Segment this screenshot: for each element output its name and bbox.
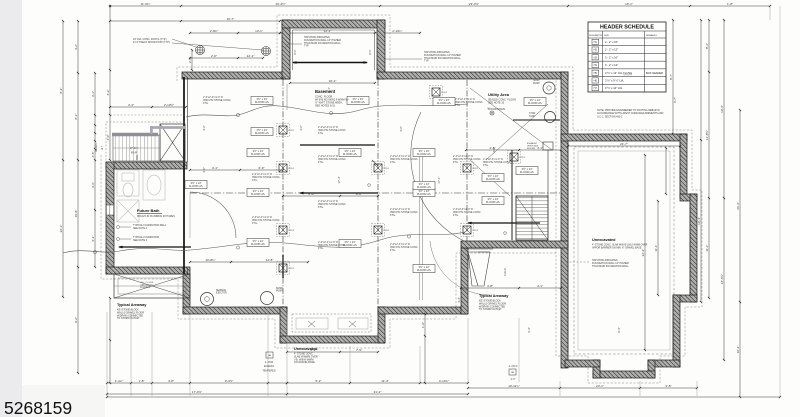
column line C	[466, 80, 468, 241]
svg-text:FLOOR LVL: FLOOR LVL	[528, 101, 543, 105]
svg-text:FTG.: FTG.	[455, 104, 461, 107]
svg-text:8'-7": 8'-7"	[669, 74, 673, 80]
left gray margin strip	[0, 0, 22, 417]
svg-text:5'-2": 5'-2"	[316, 379, 322, 383]
footing note 1	[318, 126, 347, 135]
svg-text:3 - 2" x 12": 3 - 2" x 12"	[605, 63, 618, 67]
footing P3	[277, 224, 295, 237]
column line A (dash-dot vertical)	[282, 80, 284, 307]
label box LVL 5	[247, 149, 269, 157]
faint bottom-left band	[22, 385, 105, 417]
stair labels	[130, 147, 139, 160]
photo id number 5268159	[4, 398, 72, 417]
svg-text:P1D2: P1D2	[442, 92, 448, 94]
wall wing right upper	[680, 134, 687, 198]
label box LVL 13	[339, 149, 361, 157]
label box LVL 6	[413, 149, 435, 157]
footing note 11	[390, 243, 419, 252]
footing note 13	[203, 96, 232, 105]
svg-text:FLOOR LVL: FLOOR LVL	[351, 100, 366, 104]
utility pipes	[470, 88, 552, 196]
label box LVL 11	[413, 265, 435, 273]
label box LVL 10	[339, 240, 361, 248]
svg-text:TYP.: TYP.	[304, 45, 309, 48]
svg-text:26'-1": 26'-1"	[59, 225, 63, 233]
beam arrow wing	[513, 119, 560, 121]
svg-text:4'-0": 4'-0"	[106, 135, 110, 141]
svg-text:TEMPERED: TEMPERED	[262, 369, 276, 372]
wall right of main block	[561, 72, 568, 368]
svg-text:DESIGNATION: DESIGNATION	[589, 34, 603, 37]
svg-text:2'-8": 2'-8"	[666, 384, 672, 388]
floor drain symbol	[487, 108, 494, 115]
svg-text:PUMP: PUMP	[276, 291, 283, 293]
note conc footing posts	[133, 38, 263, 50]
svg-text:FTG.: FTG.	[252, 222, 258, 225]
label box LVL 8	[413, 189, 435, 197]
svg-text:1'-8": 1'-8"	[727, 2, 733, 6]
label box LVL 4	[524, 98, 546, 106]
svg-text:U.C.C. SECTION 403-1.: U.C.C. SECTION 403-1.	[597, 115, 623, 118]
beam arrow left	[118, 246, 191, 249]
svg-text:9'-4½": 9'-4½"	[225, 379, 233, 383]
svg-text:4'-0": 4'-0"	[511, 378, 516, 381]
svg-text:SEE NOTES 8-10.: SEE NOTES 8-10.	[315, 105, 336, 108]
left dimension line 3	[91, 72, 96, 268]
svg-text:8'-0": 8'-0"	[309, 192, 315, 196]
label box LVL 17	[251, 128, 273, 136]
svg-text:2--2X62: 2--2X62	[265, 361, 274, 364]
svg-text:3 - 2" x 10": 3 - 2" x 10"	[605, 55, 618, 59]
label box LVL 3	[433, 98, 455, 106]
right dimension line 2	[705, 19, 710, 299]
svg-text:19'-4": 19'-4"	[720, 105, 724, 113]
left dimension line 2	[74, 20, 79, 374]
wall wing jog upper	[680, 194, 697, 201]
label box LVL 15	[482, 174, 504, 182]
center protrusion inner dashed windows	[292, 314, 371, 332]
footing dashed outline right wing	[556, 74, 702, 383]
wall left wing top	[106, 162, 187, 169]
svg-text:4'-8": 4'-8"	[168, 379, 174, 383]
wall wing bump right	[648, 360, 655, 378]
vertical text C1X121	[505, 267, 507, 276]
porch post 1	[196, 46, 205, 55]
right dimension line 4	[697, 19, 702, 303]
svg-text:FTG.: FTG.	[390, 214, 396, 217]
svg-text:17'-1": 17'-1"	[437, 176, 441, 183]
note hatching mid	[384, 51, 462, 63]
label Future Bath	[137, 208, 175, 218]
footing note 15	[318, 241, 347, 250]
column line B	[377, 80, 379, 307]
svg-text:4"x4" TREAT. WOOD POST (TYP.): 4"x4" TREAT. WOOD POST (TYP.)	[133, 41, 170, 44]
svg-text:4'-6": 4'-6"	[399, 126, 403, 132]
svg-text:11'-6¾": 11'-6¾"	[141, 2, 151, 6]
svg-text:44'-4": 44'-4"	[736, 202, 740, 210]
svg-text:4'-2": 4'-2"	[106, 90, 110, 96]
svg-text:FLOOR LVL: FLOOR LVL	[251, 242, 266, 246]
right wing inner face lines	[568, 141, 690, 360]
svg-text:THAN MAIN FOUNDATION WALL,: THAN MAIN FOUNDATION WALL,	[424, 57, 462, 60]
svg-text:4'-6": 4'-6"	[91, 152, 95, 158]
wall step right	[461, 248, 468, 314]
svg-text:8'-4": 8'-4"	[59, 88, 63, 94]
footing dashed outline around top walls	[177, 15, 573, 130]
footing note 7	[390, 208, 419, 217]
bump interior beam heavy	[292, 49, 372, 63]
svg-text:23'-4½": 23'-4½"	[469, 2, 479, 6]
stair enclosure dashed	[106, 122, 185, 162]
svg-text:FLOOR LVL: FLOOR LVL	[255, 131, 270, 135]
wall protrusion right	[378, 307, 385, 343]
svg-text:17'-4¼": 17'-4¼"	[130, 147, 139, 150]
utility stair treads	[516, 196, 548, 240]
svg-text:4'-6": 4'-6"	[202, 125, 206, 131]
svg-text:FLOOR LVL: FLOOR LVL	[251, 192, 266, 196]
svg-text:STOR.: STOR.	[529, 113, 536, 115]
svg-text:9'-2": 9'-2"	[74, 317, 78, 323]
svg-text:Unexcavated: Unexcavated	[592, 238, 616, 242]
svg-text:4'-4": 4'-4"	[128, 103, 134, 107]
svg-text:FLOOR LVL: FLOOR LVL	[417, 268, 432, 272]
left areaway box with X	[114, 274, 190, 298]
window break left wing wall	[107, 205, 114, 215]
wall bottom right section	[461, 241, 568, 248]
sewage ejector circle	[201, 289, 228, 306]
svg-text:9'-1": 9'-1"	[327, 87, 331, 93]
svg-text:16'-1": 16'-1"	[625, 2, 633, 6]
label box LVL 18	[185, 181, 207, 189]
label Unexcavated center	[294, 347, 318, 364]
dims above stair	[109, 103, 187, 115]
svg-text:FTG.: FTG.	[453, 161, 459, 164]
right dimension line outer	[720, 19, 725, 361]
svg-text:2 - 2" x 10": 2 - 2" x 10"	[605, 40, 618, 44]
label Utility Area	[488, 92, 516, 111]
svg-text:17'-4½": 17'-4½"	[192, 390, 202, 394]
footing P8	[461, 224, 479, 237]
porch post 2	[262, 47, 271, 56]
svg-text:8½ R: 8½ R	[131, 151, 137, 155]
svg-text:FTG.: FTG.	[390, 161, 396, 164]
footing P1	[277, 124, 295, 137]
footing P2	[277, 162, 295, 175]
svg-text:10'-8¾": 10'-8¾"	[205, 258, 215, 262]
large door-swing arc	[411, 112, 466, 242]
svg-text:4'-6": 4'-6"	[91, 182, 95, 188]
svg-text:11'-1": 11'-1"	[705, 244, 709, 251]
wall protrusion bottom	[280, 336, 385, 343]
svg-text:PUMP: PUMP	[533, 83, 540, 85]
dim line mid-left y262	[189, 258, 309, 263]
svg-text:4'-4": 4'-4"	[457, 297, 461, 303]
stair landing gray walls	[112, 126, 185, 135]
label box LVL 14	[413, 182, 435, 190]
svg-text:HEADER SCHEDULE: HEADER SCHEDULE	[600, 25, 654, 31]
footing note 6	[453, 155, 482, 164]
svg-text:5'-1": 5'-1"	[91, 236, 95, 242]
svg-text:4'-4¾": 4'-4¾"	[115, 379, 123, 383]
svg-text:2'-10½": 2'-10½"	[164, 103, 174, 107]
svg-text:C1X121: C1X121	[505, 267, 507, 276]
footing note 9	[455, 98, 484, 107]
secondary arc	[430, 241, 490, 295]
svg-text:16'-4½": 16'-4½"	[275, 2, 285, 6]
header schedule table	[588, 22, 666, 92]
svg-text:SEE NOTE 3: SEE NOTE 3	[133, 227, 148, 230]
svg-text:THAN MAIN FOUNDATION WALL,: THAN MAIN FOUNDATION WALL,	[304, 42, 342, 45]
svg-text:FTG.: FTG.	[252, 179, 258, 182]
beam arrow mid	[299, 192, 378, 195]
svg-text:8'-7": 8'-7"	[673, 97, 677, 103]
footing note 5	[390, 155, 419, 164]
footing P4	[277, 262, 295, 275]
svg-text:FTG.: FTG.	[203, 102, 209, 105]
svg-text:16'-1": 16'-1"	[329, 79, 337, 83]
footing P10	[430, 86, 448, 99]
svg-text:P1D2: P1D2	[473, 168, 479, 170]
svg-text:SUMP: SUMP	[533, 80, 540, 82]
svg-text:4'-1": 4'-1"	[537, 284, 543, 288]
svg-text:4'-2": 4'-2"	[74, 44, 78, 50]
svg-text:4'-10¾": 4'-10¾"	[439, 379, 449, 383]
bottom dimension line 1b	[467, 384, 698, 389]
svg-text:13'-1": 13'-1"	[255, 29, 263, 33]
svg-text:23'-1": 23'-1"	[596, 384, 604, 388]
label Typical Areaway 2	[479, 294, 509, 311]
note below table	[597, 109, 664, 118]
svg-text:EXHAUST: EXHAUST	[527, 142, 538, 145]
svg-text:P1D2: P1D2	[289, 168, 295, 170]
svg-text:11'-1": 11'-1"	[654, 244, 658, 251]
beam heavy line under bump	[300, 144, 375, 146]
label box LVL 9	[247, 239, 269, 247]
wall bottom mid section	[378, 307, 468, 314]
dimension line top main	[109, 2, 771, 7]
svg-text:SURFACE: SURFACE	[140, 286, 151, 289]
interior vertical dim labels	[202, 87, 677, 333]
wall left wing bottom	[106, 267, 190, 274]
wall wing top	[561, 134, 687, 141]
svg-text:FLOOR LVL: FLOOR LVL	[417, 192, 432, 196]
svg-text:P1D2: P1D2	[289, 268, 295, 270]
footing dashed outline bottom/left	[101, 155, 556, 348]
extension lines bottom	[107, 6, 780, 396]
beam arrow right	[467, 222, 540, 225]
wall bump left	[282, 20, 290, 79]
svg-text:TO STORM OUTLET: TO STORM OUTLET	[117, 317, 140, 320]
svg-text:Typical Areaway: Typical Areaway	[479, 294, 509, 298]
note typical foundation wall	[117, 224, 167, 230]
wall bump right	[377, 20, 385, 79]
right wing inner dims	[665, 19, 674, 195]
svg-text:12'-1": 12'-1"	[324, 29, 332, 33]
footing note 4	[252, 216, 281, 225]
label Basement	[315, 89, 349, 108]
svg-text:8'-4": 8'-4"	[617, 327, 621, 333]
svg-text:8'-0": 8'-0"	[356, 192, 362, 196]
svg-text:32'-4": 32'-4"	[641, 249, 645, 257]
svg-text:1'-8": 1'-8"	[139, 379, 145, 383]
svg-text:4'-1": 4'-1"	[212, 166, 218, 170]
label box LVL 2	[347, 97, 369, 105]
label box LVL 16	[516, 167, 538, 175]
dimension line top bump	[189, 29, 421, 34]
note hatching bump	[285, 36, 342, 48]
treads rotated label	[95, 143, 104, 153]
svg-text:SEWAGE: SEWAGE	[216, 289, 226, 292]
interior extension verticals	[287, 84, 423, 300]
svg-text:TREADS: TREADS	[95, 143, 98, 153]
svg-text:EGRESS: EGRESS	[264, 365, 274, 368]
wall wing right lower	[673, 295, 680, 367]
wall wing bottom right	[648, 360, 680, 367]
svg-text:4'-8": 4'-8"	[492, 147, 496, 153]
wall bottom left section	[183, 307, 287, 314]
label Typical Areaway 1	[117, 303, 147, 320]
svg-text:11'-4": 11'-4"	[381, 379, 388, 383]
svg-text:Future Bath: Future Bath	[137, 208, 160, 213]
heavy beam stub on column line A	[282, 255, 284, 278]
svg-text:FLOOR LVL: FLOOR LVL	[486, 200, 501, 204]
misc leader marks	[283, 77, 506, 234]
svg-text:14'-8": 14'-8"	[266, 258, 274, 262]
svg-text:Typical Areaway: Typical Areaway	[117, 303, 147, 307]
svg-text:FLOOR LVL: FLOOR LVL	[343, 152, 358, 156]
label box LVL 7	[247, 189, 269, 197]
svg-text:HB: HB	[511, 372, 515, 374]
svg-text:P1D2: P1D2	[473, 230, 479, 232]
interior dim wing top	[567, 142, 681, 147]
svg-text:21'-2": 21'-2"	[374, 390, 382, 394]
svg-text:FLOOR LVL: FLOOR LVL	[417, 152, 432, 156]
right dimension line 3	[736, 109, 741, 398]
svg-text:TO STORM OUTLET: TO STORM OUTLET	[479, 308, 502, 311]
svg-text:3 ½" x 14" LVL: 3 ½" x 14" LVL	[605, 86, 623, 90]
bottom dimension line 1	[106, 379, 469, 384]
left dimension line 4	[106, 5, 111, 384]
svg-text:FLOOR LVL: FLOOR LVL	[255, 100, 270, 104]
note hatching wing	[566, 259, 629, 268]
svg-text:2'-0": 2'-0"	[211, 54, 217, 58]
svg-text:FLOOR DRAIN: FLOOR DRAIN	[488, 108, 505, 111]
svg-text:FLOOR LVL: FLOOR LVL	[520, 170, 535, 174]
svg-text:4'-8": 4'-8"	[487, 284, 493, 288]
svg-text:8'-4": 8'-4"	[705, 43, 709, 49]
svg-text:SEE NOTE 6: SEE NOTE 6	[133, 239, 148, 242]
note typical foundation footing	[117, 236, 160, 242]
footing P6	[372, 224, 390, 237]
svg-text:SIZE: SIZE	[604, 35, 609, 37]
main left interior wall (thin)	[184, 77, 188, 274]
svg-text:16'-7": 16'-7"	[227, 17, 235, 21]
wall step left	[183, 274, 190, 314]
exhaust vent box	[527, 142, 553, 150]
egress window note center	[262, 352, 276, 372]
right wing inner dashed rectangle	[574, 147, 674, 354]
svg-text:TYP.: TYP.	[424, 60, 429, 63]
svg-text:FLOOR LVL: FLOOR LVL	[189, 184, 204, 188]
svg-text:HB: HB	[268, 355, 272, 357]
wall protrusion left	[280, 307, 287, 343]
footing P9	[508, 151, 526, 164]
svg-text:6'-1": 6'-1"	[368, 49, 372, 54]
svg-text:P1D2: P1D2	[289, 230, 295, 232]
footing P5	[372, 162, 390, 175]
svg-text:SEE NOTE 10: SEE NOTE 10	[488, 102, 505, 105]
footing P7	[461, 162, 479, 175]
future bath fixtures (light sketch)	[117, 170, 165, 222]
left dimension line outer	[59, 20, 64, 298]
wavy break line upper	[186, 104, 468, 117]
wall wing bump bottom	[593, 371, 655, 378]
svg-text:ROUGH-IN PLUMBING FIXTURES: ROUGH-IN PLUMBING FIXTURES	[137, 215, 175, 218]
svg-text:ON GRAVEL BASE: ON GRAVEL BASE	[294, 361, 315, 364]
bath door swing arc	[190, 192, 236, 238]
bottom dimension line long	[106, 390, 781, 398]
svg-text:2--CM 3: 2--CM 3	[509, 365, 518, 368]
interior dim utility	[465, 146, 562, 151]
bump interior inner faces	[293, 30, 375, 70]
svg-text:5268159: 5268159	[4, 398, 72, 417]
egress window note right	[509, 365, 518, 381]
footing note 14	[453, 208, 482, 217]
svg-text:FLOOR LVL: FLOOR LVL	[486, 177, 501, 181]
svg-text:17'-4": 17'-4"	[337, 176, 341, 183]
svg-text:FLOOR LVL: FLOOR LVL	[251, 152, 266, 156]
svg-text:4'-6": 4'-6"	[299, 125, 303, 131]
svg-text:2 - 2" x 12": 2 - 2" x 12"	[605, 48, 618, 52]
svg-text:11'-8½": 11'-8½"	[705, 130, 709, 140]
svg-text:FTG.: FTG.	[318, 206, 324, 209]
svg-text:VAPOR BARRIER ON MIN. 6" GRAVE: VAPOR BARRIER ON MIN. 6" GRAVEL BASE	[592, 246, 642, 249]
stair X brace	[160, 124, 185, 161]
areaway V funnel	[466, 249, 493, 286]
svg-text:10'-4": 10'-4"	[736, 346, 740, 354]
svg-text:2'-8¾": 2'-8¾"	[210, 29, 218, 33]
stair treads left	[113, 135, 160, 161]
svg-text:10'-11¾": 10'-11¾"	[508, 384, 520, 388]
svg-text:1'-9": 1'-9"	[421, 322, 425, 328]
svg-text:10'-8": 10'-8"	[74, 210, 78, 218]
sump pump circle	[533, 80, 555, 94]
svg-text:FTG.: FTG.	[318, 247, 324, 250]
svg-text:12 T: 12 T	[102, 145, 104, 150]
wall wing bottom left	[565, 360, 600, 367]
svg-text:3 ½" x 14" LVL FLUSH: 3 ½" x 14" LVL FLUSH	[605, 71, 632, 75]
wall left wing left	[106, 162, 114, 274]
svg-text:FTG.: FTG.	[453, 214, 459, 217]
svg-text:7'-9": 7'-9"	[356, 348, 362, 352]
svg-text:FLOOR LVL: FLOOR LVL	[417, 185, 432, 189]
svg-text:18'-6½": 18'-6½"	[720, 274, 724, 284]
footing note 10	[483, 158, 512, 167]
label box LVL 12	[482, 197, 504, 205]
svg-text:FTG.: FTG.	[390, 249, 396, 252]
dimension line top second	[109, 17, 281, 22]
footing note 3	[318, 200, 347, 209]
svg-text:THAN MAIN FOUNDATION WALL: THAN MAIN FOUNDATION WALL	[592, 265, 629, 268]
beam line horizontal (dash-dot)	[190, 192, 560, 194]
wing interior vertical dim	[641, 154, 646, 351]
svg-text:21'-7": 21'-7"	[620, 142, 628, 146]
svg-text:3 ½" x 9 ½" LVL: 3 ½" x 9 ½" LVL	[605, 79, 625, 83]
svg-text:3'-1": 3'-1"	[91, 91, 95, 97]
svg-text:P1D2: P1D2	[520, 157, 526, 159]
wavy break line lower	[63, 232, 465, 254]
svg-text:P1D2: P1D2	[289, 130, 295, 132]
